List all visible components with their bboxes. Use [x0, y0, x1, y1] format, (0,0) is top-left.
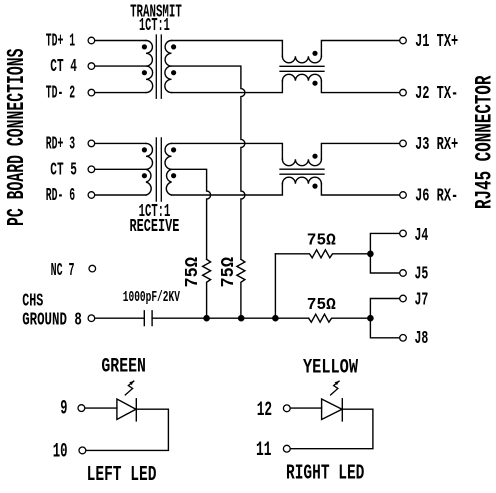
choke L2 core: [280, 169, 324, 174]
svg-text:TD+ 1: TD+ 1: [46, 32, 75, 52]
LED D1 arrowhead: [129, 381, 133, 385]
LED D2 triangle: [322, 399, 342, 420]
LED D2 emission arrow: [331, 381, 340, 395]
wire junction to J8: [370, 318, 400, 338]
LED D2 yellow: wire pin12 to anode: [290, 407, 321, 409]
wire T1 secondary bottom to choke L1: [172, 81, 283, 93]
pin 9 terminal circle: [78, 405, 85, 412]
svg-text:J6 RX-: J6 RX-: [415, 186, 458, 206]
J8 terminal circle: [400, 335, 407, 342]
LED D1 triangle: [117, 399, 136, 420]
svg-text:RIGHT LED: RIGHT LED: [286, 462, 364, 485]
wire T2 secondary center tap down to resistor R1 with hop: [172, 169, 211, 259]
LED D2 arrowhead: [335, 381, 339, 385]
wire choke L2 top to J3: [321, 143, 400, 159]
svg-text:J3 RX+: J3 RX+: [415, 135, 458, 155]
pin 4 terminal circle: [88, 63, 95, 70]
J7 terminal circle: [400, 295, 407, 302]
svg-text:J7: J7: [415, 290, 429, 310]
pin 8 terminal circle: [88, 315, 95, 322]
svg-text:NC 7: NC 7: [51, 261, 75, 281]
T2 secondary dot 1: [171, 147, 176, 152]
wire resistor R3 left leg down to ground bus: [274, 254, 276, 318]
L2 bottom winding dot: [312, 184, 317, 189]
svg-text:RD- 6: RD- 6: [46, 186, 75, 206]
svg-text:LEFT LED: LEFT LED: [87, 464, 157, 487]
transformer T1 secondary winding: [165, 41, 172, 93]
T1 secondary dot 2: [171, 70, 176, 75]
svg-text:PC BOARD CONNECTIONS: PC BOARD CONNECTIONS: [4, 49, 31, 227]
resistor R3 75 ohm horizontal to J4 J5: [275, 250, 370, 258]
svg-text:75Ω: 75Ω: [307, 296, 336, 315]
T1 secondary dot 1: [171, 44, 176, 49]
svg-text:75Ω: 75Ω: [217, 257, 239, 288]
T1 primary dot 2: [142, 70, 147, 75]
transformer T2 secondary winding: [165, 143, 171, 195]
LED D1 green: wire pin9 to anode: [85, 407, 117, 409]
junction dot J4 J5 node: [367, 251, 374, 258]
pin 6 terminal circle: [88, 192, 95, 199]
resistor R2 75 ohm vertical: [237, 259, 245, 318]
J5 terminal circle: [400, 270, 407, 277]
resistor R4 75 ohm horizontal on ground bus: [309, 314, 371, 322]
svg-text:J8: J8: [415, 329, 429, 349]
pin 1 terminal circle: [88, 37, 95, 44]
wire pin1 TD+ to T1 primary: [95, 40, 147, 42]
junction dot J7 J8 node: [367, 315, 374, 322]
junction dot R2 ground bus: [238, 315, 245, 322]
pin 12 terminal circle: [283, 405, 290, 412]
choke L2 bottom winding: [282, 177, 321, 183]
svg-text:12: 12: [257, 399, 272, 422]
svg-text:YELLOW: YELLOW: [303, 356, 358, 379]
J6 terminal circle: [400, 192, 407, 199]
svg-text:11: 11: [256, 439, 271, 462]
J4 terminal circle: [400, 230, 407, 237]
wire junction to J4: [370, 233, 400, 253]
J2 terminal circle: [400, 89, 407, 96]
pin 3 terminal circle: [88, 140, 95, 147]
wire pin4 CT to T1 primary: [95, 65, 147, 67]
choke L1 top winding: [282, 56, 321, 63]
wire pin6 RD- to T2 primary: [95, 194, 147, 196]
svg-text:J2 TX-: J2 TX-: [415, 84, 458, 104]
LED D1 cathode bar: [135, 399, 137, 421]
LED D2 cathode bar: [341, 399, 343, 421]
svg-text:CT 5: CT 5: [50, 160, 77, 180]
transformer T1 primary winding: [146, 41, 153, 93]
wire T1 secondary center tap down to resistor R2 with hops: [172, 66, 245, 259]
pin 2 terminal circle: [88, 89, 95, 96]
pin 7 terminal circle: [89, 265, 96, 272]
svg-text:GREEN: GREEN: [101, 356, 145, 379]
T1 primary dot 1: [142, 44, 147, 49]
choke L1 bottom winding: [282, 74, 321, 81]
svg-text:75Ω: 75Ω: [307, 231, 336, 250]
J3 terminal circle: [400, 140, 407, 147]
T2 primary dot 2: [142, 173, 147, 178]
wire pin2 TD- to T1 primary: [95, 92, 147, 94]
T2 secondary dot 2: [171, 173, 176, 178]
L1 bottom winding dot: [312, 81, 317, 86]
wire pin5 CT to T2 primary: [95, 168, 147, 170]
wire T2 secondary bottom to choke L2: [172, 184, 283, 195]
svg-text:9: 9: [60, 398, 67, 421]
transformer T2 primary winding: [146, 143, 153, 195]
svg-text:RJ45 CONNECTOR: RJ45 CONNECTOR: [471, 75, 496, 209]
ground bus wire: [152, 317, 309, 319]
wire T2 secondary top to choke L2: [172, 143, 283, 159]
transformer T1 core: [156, 35, 161, 98]
J1 terminal circle: [400, 37, 407, 44]
wire pin8 ground to capacitor C1: [95, 317, 145, 319]
T2 primary dot 1: [142, 147, 147, 152]
wire choke L1 top to J1: [321, 41, 400, 57]
pin 5 terminal circle: [88, 166, 95, 173]
transformer T2 core: [156, 138, 161, 201]
pin 11 terminal circle: [283, 445, 290, 452]
svg-text:1CT:1: 1CT:1: [139, 16, 170, 36]
svg-text:CT 4: CT 4: [50, 57, 77, 77]
L2 top winding dot: [312, 154, 317, 159]
svg-text:RD+ 3: RD+ 3: [46, 134, 75, 154]
junction dot R3 leg ground bus: [272, 315, 279, 322]
wire choke L1 bottom to J2: [321, 81, 400, 93]
svg-text:1000pF/2KV: 1000pF/2KV: [123, 288, 181, 306]
choke L2 top winding: [282, 159, 321, 166]
wire LED D2 cathode to pin11: [290, 409, 373, 449]
svg-text:TD- 2: TD- 2: [46, 84, 75, 104]
svg-text:J5: J5: [415, 264, 429, 284]
choke L1 core: [280, 66, 324, 71]
svg-text:J4: J4: [415, 226, 429, 246]
wire LED D1 cathode to pin10: [86, 409, 169, 450]
svg-text:RECEIVE: RECEIVE: [130, 217, 180, 237]
junction dot R1 ground bus: [203, 315, 210, 322]
wire choke L2 bottom to J6: [321, 184, 400, 195]
wire junction to J5: [370, 254, 400, 273]
resistor R1 75 ohm vertical: [203, 259, 211, 318]
capacitor C1 1000pF/2KV plates: [144, 311, 152, 326]
wire T1 secondary top to choke L1: [172, 41, 283, 57]
L1 top winding dot: [312, 51, 317, 56]
svg-text:J1 TX+: J1 TX+: [415, 32, 458, 52]
LED D1 emission arrow: [125, 381, 134, 395]
svg-text:GROUND 8: GROUND 8: [22, 309, 82, 330]
wire pin3 RD+ to T2 primary: [95, 142, 147, 144]
svg-text:75Ω: 75Ω: [181, 257, 203, 288]
svg-text:10: 10: [53, 440, 68, 463]
pin 10 terminal circle: [79, 447, 86, 454]
wire junction to J7: [370, 299, 400, 319]
